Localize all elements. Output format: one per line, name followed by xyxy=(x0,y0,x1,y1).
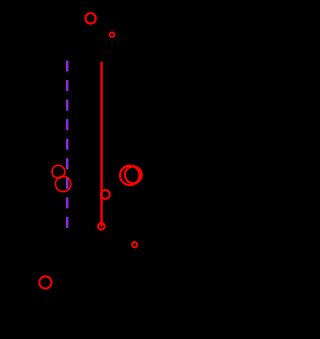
marker circle A xyxy=(85,13,95,23)
marker circle F xyxy=(101,190,110,199)
marker circle B xyxy=(110,32,115,37)
marker circle E2 xyxy=(125,166,142,183)
marker circle D xyxy=(55,176,70,191)
red vline xyxy=(100,62,102,227)
marker circle G (end of red line) xyxy=(98,223,105,230)
marker circle C xyxy=(52,165,65,178)
purple dashed vline xyxy=(66,61,69,229)
marker circle E1 xyxy=(120,166,140,186)
marker circle I xyxy=(39,276,51,288)
marker circle H xyxy=(132,242,137,247)
